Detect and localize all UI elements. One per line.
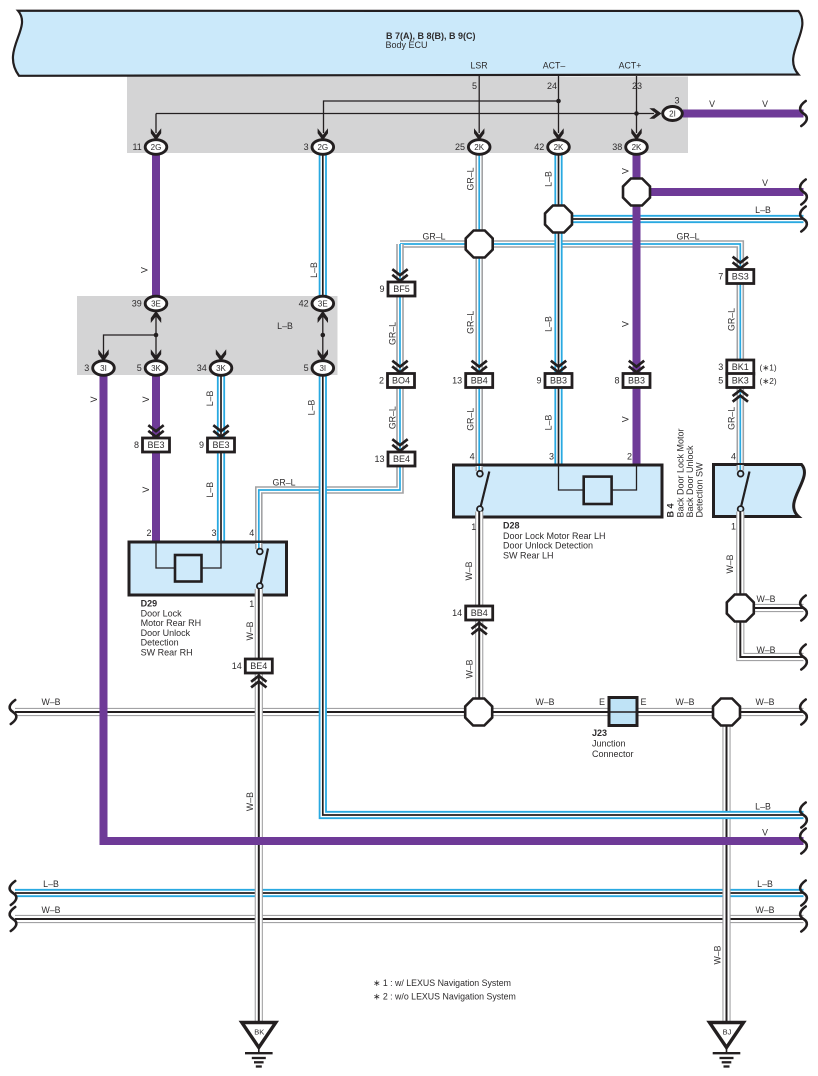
break symbol right of V wire top [800, 101, 807, 126]
svg-text:J23: J23 [592, 728, 607, 738]
svg-text:Door Unlock: Door Unlock [141, 628, 191, 638]
break symbol right of L-B wire [800, 207, 807, 232]
B4 pin 4 wire stub [736, 465, 744, 471]
svg-text:Door Unlock Detection: Door Unlock Detection [503, 541, 593, 551]
svg-text:4: 4 [249, 528, 254, 538]
wire L-B from connector 2G pin 3 to 3E pin 42 [319, 150, 327, 300]
connector BB3 pin 8 [614, 374, 650, 388]
svg-text:BO4: BO4 [392, 376, 410, 386]
connector BE3 pin 9 [199, 438, 235, 452]
arrow chevrons into BE4 pin 13 [392, 439, 407, 451]
arrow into 3K pin 34 [216, 349, 226, 361]
D28 pin 1 wire stub [475, 512, 483, 520]
Body ECU block [13, 11, 802, 76]
svg-text:8: 8 [134, 440, 139, 450]
svg-text:L–B: L–B [757, 879, 773, 889]
svg-text:(∗1): (∗1) [760, 363, 777, 373]
svg-text:L–B: L–B [544, 415, 554, 431]
svg-text:BB4: BB4 [471, 376, 488, 386]
D28 internal motor wiring [559, 466, 637, 490]
svg-text:V: V [762, 178, 768, 188]
svg-text:2G: 2G [317, 143, 328, 152]
svg-text:BB3: BB3 [550, 376, 567, 386]
wire from 3E39 to 3K5 and 3I3 with junction [104, 311, 157, 358]
wire L-B horizontal from junction to right break [559, 215, 804, 223]
svg-text:SW Rear RH: SW Rear RH [141, 647, 193, 657]
break symbol right of V wire [800, 180, 807, 205]
connector 3K pin 34 [197, 361, 232, 376]
junction connector on B4 W-B wire [727, 595, 754, 622]
svg-text:7: 7 [718, 272, 723, 282]
break symbol right of bottom L-B bus [800, 881, 807, 906]
svg-text:8: 8 [614, 376, 619, 386]
arrow into 2K pin 38 [631, 128, 641, 140]
svg-text:V: V [621, 416, 631, 422]
svg-text:GR–L: GR–L [727, 407, 737, 430]
arrow into 2G pin 3 [318, 128, 328, 140]
svg-text:GR–L: GR–L [466, 311, 476, 334]
connector BB4 pin 13 [452, 374, 493, 388]
svg-text:Detection: Detection [141, 638, 179, 648]
connector BF5 pin 9 [379, 282, 415, 296]
wire GR-L from connector 2K pin 25 down to D28 pin 4 [475, 150, 483, 466]
switch in B4 [738, 471, 750, 512]
svg-text:L–B: L–B [277, 321, 293, 331]
svg-text:BK1: BK1 [732, 362, 749, 372]
connector BO4 pin 2 [379, 374, 415, 388]
relay D28 Door Lock Motor Rear LH [454, 465, 663, 517]
svg-text:2I: 2I [669, 109, 676, 118]
connector BE4 pin 14 [232, 659, 273, 673]
svg-text:W–B: W–B [245, 621, 255, 640]
wire L-B from connector 3K pin 34 through BE3 to D29 pin 3 [217, 368, 225, 543]
svg-text:L–B: L–B [755, 802, 771, 812]
D28 pin 4 wire stub [475, 466, 483, 471]
svg-text:L–B: L–B [43, 879, 59, 889]
break symbol right of W-B bus [800, 700, 807, 725]
svg-text:GR–L: GR–L [466, 408, 476, 431]
svg-text:BJ: BJ [723, 1028, 732, 1037]
arrow chevrons into BB3 pin 9 [551, 361, 566, 373]
svg-text:Connector: Connector [592, 749, 634, 759]
svg-text:GR–L: GR–L [466, 167, 476, 190]
svg-text:39: 39 [132, 299, 142, 309]
bottom W-B bus wire [15, 915, 804, 923]
wire W-B from B4 pin 1 to junction and right breaks [736, 518, 744, 608]
svg-text:14: 14 [232, 661, 242, 671]
svg-text:LSR: LSR [470, 61, 487, 71]
wire GR-L chain BF5 BO4 BE4 down to D29 pin 4 [259, 244, 400, 543]
arrow chevrons out of BK3 [733, 390, 748, 402]
svg-text:GR–L: GR–L [727, 308, 737, 331]
arrow into 3I pin 5 [318, 349, 328, 361]
svg-text:3: 3 [674, 96, 679, 106]
junction connector on GR-L wire [466, 231, 493, 258]
svg-text:W–B: W–B [725, 554, 735, 573]
arrow chevrons into BE3 pin 8 [148, 425, 163, 437]
svg-text:(∗2): (∗2) [760, 376, 777, 386]
D29 internal motor wiring [156, 543, 221, 568]
connector BB3 pin 9 [536, 374, 572, 388]
svg-text:4: 4 [470, 452, 475, 462]
svg-text:Body ECU: Body ECU [386, 40, 428, 50]
svg-text:42: 42 [299, 299, 309, 309]
ground BJ [710, 1023, 744, 1067]
svg-text:3: 3 [304, 142, 309, 152]
junction connector on V wire [623, 179, 650, 206]
wire V from connector 2I to right break [683, 110, 804, 118]
junction node on ACT+ line [634, 111, 639, 116]
break symbol right of W-B wire lower [800, 645, 807, 670]
svg-text:W–B: W–B [41, 697, 60, 707]
svg-text:2: 2 [627, 452, 632, 462]
arrow into 2G pin 11 [151, 128, 161, 140]
connector 2K pin 38 [612, 140, 647, 155]
svg-text:L–B: L–B [544, 171, 554, 187]
svg-text:BE4: BE4 [250, 661, 267, 671]
svg-text:D28: D28 [503, 521, 520, 531]
svg-text:SW Rear LH: SW Rear LH [503, 550, 554, 560]
connector 3E pin 39 [132, 296, 167, 311]
svg-text:BE3: BE3 [212, 440, 229, 450]
svg-text:24: 24 [547, 81, 557, 91]
svg-text:2K: 2K [554, 143, 564, 152]
svg-text:L–B: L–B [544, 316, 554, 332]
svg-text:3K: 3K [216, 364, 226, 373]
svg-text:E: E [599, 697, 605, 707]
wire from 3E42 to 3I5 with junction [322, 311, 324, 358]
svg-text:11: 11 [132, 142, 141, 152]
svg-text:9: 9 [379, 284, 384, 294]
svg-text:42: 42 [534, 142, 544, 152]
switch in D29 [257, 549, 268, 589]
svg-text:1: 1 [731, 522, 736, 532]
wire W-B from bus junction to ground BJ [722, 712, 730, 1023]
svg-text:3: 3 [718, 362, 723, 372]
arrow into 2K pin 42 [553, 128, 563, 140]
svg-text:5: 5 [718, 376, 723, 386]
arrow chevrons into BB3 pin 8 [629, 361, 644, 373]
svg-text:13: 13 [452, 376, 462, 386]
svg-text:34: 34 [197, 363, 207, 373]
svg-text:BK: BK [254, 1028, 264, 1037]
svg-text:2G: 2G [151, 143, 162, 152]
svg-text:GR–L: GR–L [388, 406, 398, 429]
svg-text:1: 1 [249, 599, 254, 609]
wire ACT- pin 24 to connectors 2K pin 42 and 2G pin 3 [324, 76, 559, 133]
svg-text:B 4: B 4 [665, 503, 675, 517]
wire W-B from D28 pin 1 through BB4 to bus junction [475, 518, 483, 712]
arrow into 3I pin 3 [98, 349, 108, 361]
svg-text:V: V [141, 487, 151, 493]
switch B4 Back Door Lock Motor [714, 465, 805, 517]
connector 3E pin 42 [299, 296, 334, 311]
junction node on ACT- line [556, 99, 561, 104]
wire L-B from connector 3I pin 5 down and right to break [323, 371, 804, 815]
svg-text:V: V [621, 321, 631, 327]
break symbol left of bottom L-B bus [10, 881, 17, 905]
arrow into 3K pin 5 [151, 349, 161, 361]
svg-text:3E: 3E [151, 299, 161, 308]
ground BK [242, 1023, 276, 1067]
arrow chevrons into BB4 pin 13 [472, 361, 487, 373]
svg-text:GR–L: GR–L [388, 322, 398, 345]
break symbol left of W-B bus [10, 700, 17, 724]
wire GR-L horizontal from junction to connector BS3 and B4 pin 4 [400, 244, 740, 465]
svg-text:W–B: W–B [675, 697, 694, 707]
svg-text:V: V [709, 99, 715, 109]
svg-text:ACT–: ACT– [543, 61, 566, 71]
svg-text:W–B: W–B [245, 792, 255, 811]
break symbol right of W-B wire upper [800, 596, 807, 621]
svg-text:L–B: L–B [205, 482, 215, 498]
bottom L-B bus wire [15, 889, 804, 897]
svg-text:3K: 3K [151, 364, 161, 373]
svg-text:3: 3 [211, 528, 216, 538]
svg-text:W–B: W–B [464, 561, 474, 580]
break symbol right of L-B wire bottom [800, 803, 807, 828]
wire V from connector 3I pin 3 down and right to break [104, 374, 804, 841]
arrow chevrons into BO4 [392, 361, 407, 373]
junction connector on W-B bus left [465, 699, 492, 726]
svg-text:D29: D29 [141, 599, 158, 609]
svg-text:E: E [640, 697, 646, 707]
svg-text:BS3: BS3 [732, 272, 749, 282]
arrow chevrons into BE4 pin 14 from below [251, 676, 266, 688]
svg-text:L–B: L–B [307, 400, 317, 416]
svg-text:W–B: W–B [713, 945, 723, 964]
B4 pin 1 wire stub [736, 512, 744, 519]
connector 2K pin 25 [455, 140, 490, 155]
svg-text:3E: 3E [318, 299, 328, 308]
arrow chevrons into BE3 pin 9 [213, 425, 228, 437]
svg-text:3I: 3I [100, 364, 107, 373]
arrow chevrons into BB4 pin 14 from below [472, 623, 487, 635]
svg-text:14: 14 [452, 608, 462, 618]
D29 pin 4 wire stub [255, 543, 263, 549]
svg-text:BE3: BE3 [147, 440, 164, 450]
svg-text:V: V [89, 396, 99, 402]
svg-text:9: 9 [536, 376, 541, 386]
svg-text:3: 3 [549, 452, 554, 462]
svg-text:1: 1 [471, 522, 476, 532]
connector 2G pin 3 [304, 140, 334, 155]
svg-text:BK3: BK3 [732, 376, 749, 386]
svg-text:GR–L: GR–L [423, 232, 446, 242]
break symbol left of bottom W-B bus [10, 907, 17, 931]
connector BK3 pin 5 [718, 374, 754, 388]
svg-text:4: 4 [731, 452, 736, 462]
connector 3I pin 5 [304, 361, 334, 376]
wire V from connector 3K pin 5 through BE3 to D29 pin 2 [152, 371, 160, 543]
motor M in D29 [175, 555, 202, 582]
svg-text:Door Lock Motor Rear LH: Door Lock Motor Rear LH [503, 531, 606, 541]
wire W-B from D29 pin 1 through BE4 to ground BK [255, 597, 263, 1023]
svg-text:Motor Rear RH: Motor Rear RH [141, 618, 202, 628]
svg-text:W–B: W–B [465, 659, 475, 678]
svg-text:5: 5 [137, 363, 142, 373]
wire L-B from connector 2K pin 42 down to D28 pin 3 [554, 150, 562, 466]
svg-text:W–B: W–B [756, 594, 775, 604]
wire V horizontal from junction to right break [637, 188, 804, 196]
svg-text:2K: 2K [474, 143, 484, 152]
svg-text:V: V [762, 99, 768, 109]
connector 2G pin 11 [132, 140, 166, 155]
arrow into 2I pin 3 [649, 108, 661, 118]
svg-text:V: V [140, 267, 150, 273]
connector BK1 pin 3 [718, 360, 754, 374]
svg-text:∗ 2 : w/o LEXUS Navigation Sys: ∗ 2 : w/o LEXUS Navigation System [373, 992, 516, 1002]
junction connector on W-B bus right [713, 699, 740, 726]
svg-text:BE4: BE4 [393, 454, 410, 464]
svg-text:BB4: BB4 [471, 608, 488, 618]
svg-text:Junction: Junction [592, 739, 626, 749]
arrow chevrons into BS3 [733, 257, 748, 269]
D29 pin 1 wire stub [255, 589, 263, 597]
arrow into 3E pin 39 [151, 311, 161, 323]
svg-text:W–B: W–B [535, 697, 554, 707]
svg-text:3: 3 [84, 363, 89, 373]
svg-text:BF5: BF5 [393, 284, 410, 294]
svg-text:ACT+: ACT+ [619, 61, 642, 71]
gray connector area 2 [77, 296, 338, 375]
svg-text:25: 25 [455, 142, 465, 152]
connector 2I pin 3 [663, 96, 683, 121]
svg-text:Door Lock: Door Lock [141, 609, 183, 619]
wire V from connector 2G pin 11 to 3E pin 39 [152, 147, 160, 300]
svg-text:L–B: L–B [205, 390, 215, 406]
svg-text:V: V [621, 168, 631, 174]
wire V from connector 2K pin 38 down to D28 pin 2 [633, 150, 641, 466]
svg-text:Detection SW: Detection SW [695, 462, 705, 518]
connector 3I pin 3 [84, 361, 114, 376]
svg-text:38: 38 [612, 142, 622, 152]
junction connector J23 [609, 698, 637, 726]
svg-text:W–B: W–B [755, 697, 774, 707]
svg-text:GR–L: GR–L [273, 478, 296, 488]
svg-text:3I: 3I [319, 364, 326, 373]
svg-text:9: 9 [199, 440, 204, 450]
svg-text:V: V [762, 828, 768, 838]
connector BE4 pin 13 [374, 452, 415, 466]
svg-text:2: 2 [146, 528, 151, 538]
connector 3K pin 5 [137, 361, 167, 376]
svg-text:V: V [141, 396, 151, 402]
svg-text:L–B: L–B [755, 205, 771, 215]
svg-text:2K: 2K [632, 143, 642, 152]
svg-text:23: 23 [632, 81, 642, 91]
junction connector on L-B wire [545, 206, 572, 233]
svg-text:W–B: W–B [755, 905, 774, 915]
break symbol right of V wire bottom [800, 829, 807, 854]
svg-text:5: 5 [472, 81, 477, 91]
switch in D28 [477, 471, 489, 512]
connector 2K pin 42 [534, 140, 569, 155]
connector BE3 pin 8 [134, 438, 170, 452]
svg-text:2: 2 [379, 376, 384, 386]
svg-text:5: 5 [304, 363, 309, 373]
wire LSR pin 5 to connector 2K pin 25 [478, 76, 480, 133]
svg-text:13: 13 [374, 454, 384, 464]
arrow chevrons into BF5 [392, 269, 407, 281]
arrow into 2K pin 25 [474, 128, 484, 140]
main W-B bus wire [15, 708, 804, 716]
svg-text:L–B: L–B [309, 262, 319, 278]
connector BB4 pin 14 [452, 606, 493, 620]
arrow into 3E pin 42 [318, 311, 328, 323]
svg-text:Back Door Lock Motor: Back Door Lock Motor [675, 428, 685, 517]
wire ACT+ pin 23 to connectors 2K pin 38, 2G pin 11 and 2I pin 3 [156, 76, 654, 133]
gray connector area 1 [127, 77, 688, 154]
svg-text:GR–L: GR–L [677, 232, 700, 242]
motor M in D28 [584, 477, 612, 504]
svg-text:∗ 1 : w/ LEXUS Navigation Syst: ∗ 1 : w/ LEXUS Navigation System [373, 978, 511, 988]
break symbol right of bottom W-B bus [800, 907, 807, 932]
svg-text:W–B: W–B [41, 905, 60, 915]
svg-text:Back Door Unlock: Back Door Unlock [685, 445, 695, 518]
relay D29 Door Lock Motor Rear RH [129, 542, 287, 595]
svg-text:BB3: BB3 [628, 376, 645, 386]
connector BS3 pin 7 [718, 270, 754, 284]
svg-text:W–B: W–B [756, 645, 775, 655]
